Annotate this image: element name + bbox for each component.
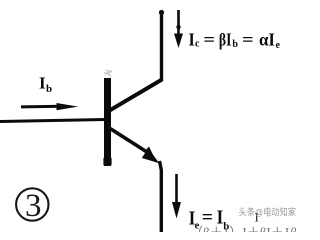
svg-text:3: 3 bbox=[25, 188, 42, 224]
label Ib bbox=[39, 74, 52, 96]
svg-text:αI: αI bbox=[259, 30, 275, 50]
current arrow Ib bbox=[21, 103, 78, 110]
wire base lead bbox=[0, 120, 105, 122]
svg-text:头条@电动知家: 头条@电动知家 bbox=[239, 207, 297, 219]
current arrow Ie bbox=[172, 174, 181, 219]
svg-text:I: I bbox=[189, 30, 195, 50]
svg-text:=: = bbox=[203, 30, 215, 50]
svg-text:c: c bbox=[195, 39, 200, 50]
cut-off bottom text fragments bbox=[190, 225, 297, 240]
emitter arrowhead bbox=[142, 147, 160, 164]
label formula Ic = beta Ib = alpha Ie bbox=[189, 30, 281, 52]
svg-text:I: I bbox=[39, 74, 46, 93]
node 3 circled bbox=[16, 188, 48, 224]
watermark bbox=[239, 207, 297, 219]
svg-text:b: b bbox=[46, 83, 52, 95]
wire emitter diagonal bbox=[107, 127, 150, 155]
svg-text:βI: βI bbox=[219, 30, 232, 50]
svg-text:（β＋1）I＋βI＋ I β: （β＋1）I＋βI＋ I β bbox=[190, 225, 297, 232]
current arrow Ic bbox=[174, 10, 183, 48]
label formula Ie = Ib bbox=[189, 207, 259, 233]
svg-text:b: b bbox=[232, 39, 238, 50]
svg-text:=: = bbox=[242, 30, 254, 50]
wire collector diagonal bbox=[107, 80, 162, 113]
svg-text:e: e bbox=[276, 40, 281, 51]
transistor Q1 base bar bbox=[103, 70, 112, 166]
wire emitter vertical bbox=[160, 161, 162, 232]
wire collector vertical bbox=[159, 10, 164, 81]
